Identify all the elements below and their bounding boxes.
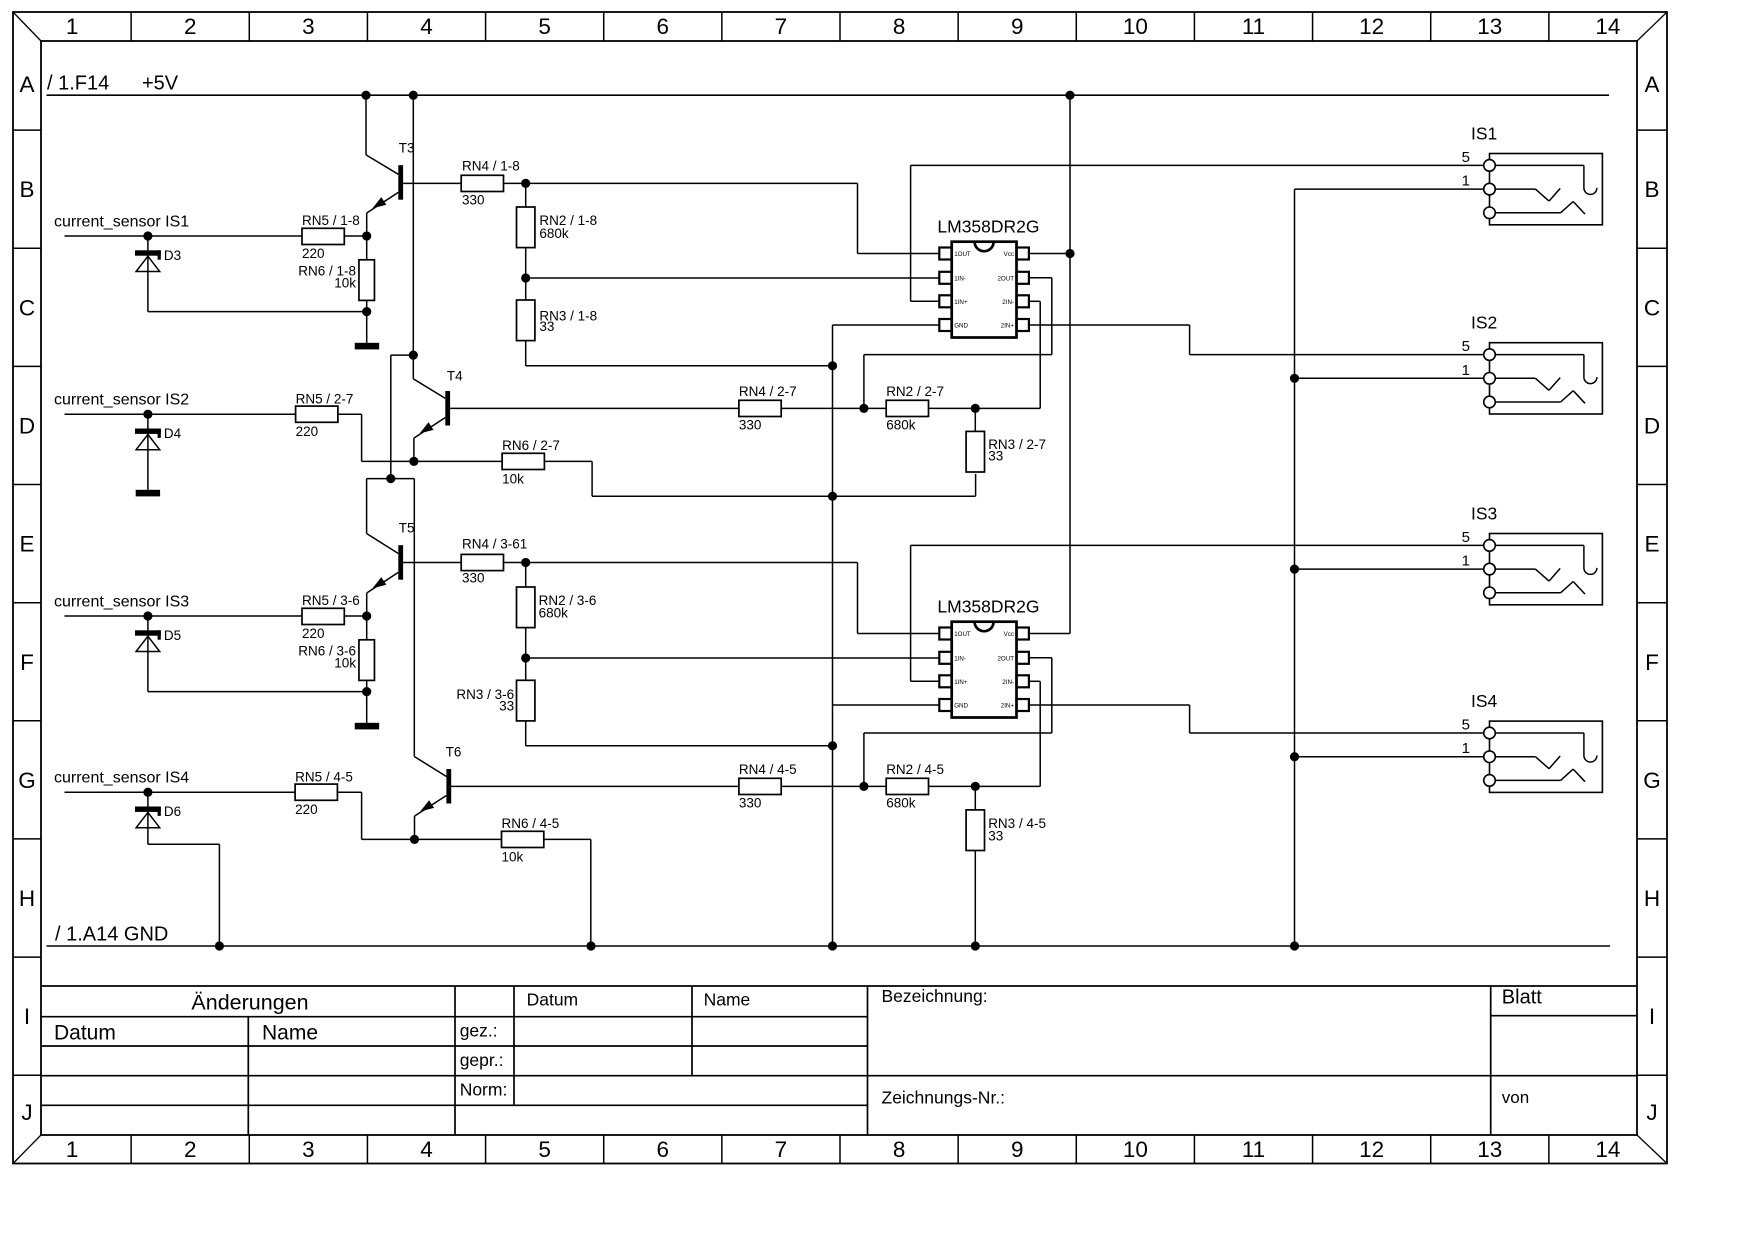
- svg-text:220: 220: [302, 626, 325, 641]
- junction RN2-3-6 / RN3-3-6 (U2 1IN-): [521, 653, 530, 662]
- svg-text:33: 33: [988, 829, 1003, 844]
- power net +5V line: [47, 94, 1610, 96]
- svg-text:current_sensor IS4: current_sensor IS4: [54, 770, 189, 787]
- svg-text:2OUT: 2OUT: [997, 655, 1014, 662]
- resistor RN4 / 2-7 330: [739, 384, 886, 432]
- junction bus/IS3 pin1: [1290, 565, 1299, 574]
- svg-text:3: 3: [302, 14, 315, 39]
- resistor RN3 / 3-6 33: [456, 658, 832, 746]
- svg-text:D3: D3: [164, 248, 181, 263]
- svg-text:220: 220: [296, 424, 319, 439]
- resistor RN6 / 4-5 10k: [502, 816, 591, 946]
- svg-text:+5V: +5V: [142, 73, 179, 95]
- connector IS3 (audio jack): [1462, 504, 1603, 605]
- svg-text:D: D: [1644, 413, 1660, 438]
- diode D6: [135, 792, 219, 946]
- resistor RN3 / 1-8 33: [517, 278, 833, 366]
- svg-text:11: 11: [1242, 14, 1265, 39]
- junction IS1/D3: [143, 231, 152, 240]
- svg-text:J: J: [21, 1100, 32, 1125]
- transistor T5: [367, 521, 462, 617]
- svg-text:33: 33: [539, 319, 554, 334]
- svg-text:3: 3: [302, 1137, 315, 1162]
- svg-text:B: B: [1644, 177, 1659, 202]
- connector IS4 (audio jack): [1462, 691, 1603, 792]
- svg-text:RN5 / 1-8: RN5 / 1-8: [302, 213, 360, 228]
- op-amp U1 LM358DR2G: [937, 217, 1039, 338]
- resistor RN2 / 4-5 680k: [886, 762, 1040, 810]
- svg-text:5: 5: [1462, 717, 1470, 734]
- wire RN4-3-6 junction to U2 pin 1OUT: [526, 563, 940, 634]
- wire +5V rail to op-amps Vcc: [1029, 95, 1070, 633]
- net label current_sensor IS2: [54, 392, 189, 409]
- svg-text:von: von: [1502, 1088, 1529, 1107]
- svg-text:C: C: [19, 295, 35, 320]
- resistor RN2 / 1-8 680k: [517, 183, 598, 278]
- wire current_sensor IS4: [65, 791, 296, 793]
- wire U2 GND pin to ground rail: [833, 704, 940, 706]
- svg-text:LM358DR2G: LM358DR2G: [937, 217, 1039, 237]
- svg-text:Name: Name: [704, 990, 751, 1010]
- junction IS4/D6: [143, 788, 152, 797]
- junction Vcc U1: [1065, 249, 1074, 258]
- svg-text:1OUT: 1OUT: [954, 251, 971, 258]
- svg-text:12: 12: [1359, 14, 1384, 39]
- svg-text:D: D: [19, 413, 35, 438]
- svg-text:2IN-: 2IN-: [1002, 299, 1014, 306]
- svg-text:13: 13: [1477, 1137, 1502, 1162]
- svg-text:1IN-: 1IN-: [954, 655, 966, 662]
- junction T3 emitter / RN5 / RN6: [362, 231, 371, 240]
- svg-text:7: 7: [775, 14, 788, 39]
- svg-text:Änderungen: Änderungen: [191, 991, 308, 1015]
- wire RN4-1-8 junction to U1 pin 1OUT: [526, 183, 940, 253]
- svg-text:680k: 680k: [539, 226, 569, 241]
- svg-text:Blatt: Blatt: [1502, 987, 1542, 1009]
- svg-text:Norm:: Norm:: [460, 1080, 508, 1100]
- svg-text:A: A: [19, 72, 34, 97]
- title block grid: [41, 986, 1637, 1135]
- svg-text:Bezeichnung:: Bezeichnung:: [882, 986, 988, 1006]
- svg-text:10k: 10k: [334, 656, 356, 671]
- svg-text:LM358DR2G: LM358DR2G: [937, 597, 1039, 617]
- svg-text:4: 4: [420, 1137, 433, 1162]
- svg-text:RN2 / 2-7: RN2 / 2-7: [886, 384, 944, 399]
- svg-text:1: 1: [1462, 173, 1470, 190]
- svg-text:8: 8: [893, 1137, 906, 1162]
- svg-text:Vcc: Vcc: [1004, 251, 1014, 258]
- svg-text:E: E: [1644, 532, 1659, 557]
- junction bus/IS2 pin1: [1290, 374, 1299, 383]
- svg-text:IS2: IS2: [1471, 313, 1497, 333]
- connector IS1 (audio jack): [1462, 124, 1603, 225]
- svg-text:D5: D5: [164, 628, 181, 643]
- net label current_sensor IS3: [54, 594, 189, 611]
- diode D5: [135, 616, 367, 692]
- svg-text:I: I: [1649, 1004, 1655, 1029]
- svg-text:GND: GND: [954, 703, 968, 710]
- junction RN6-3-6 bottom / D5: [362, 687, 371, 696]
- svg-text:RN2 / 4-5: RN2 / 4-5: [886, 762, 944, 777]
- svg-text:1IN+: 1IN+: [954, 299, 968, 306]
- svg-text:330: 330: [739, 796, 762, 811]
- svg-text:680k: 680k: [539, 606, 569, 621]
- svg-text:1OUT: 1OUT: [954, 631, 971, 638]
- svg-text:2IN-: 2IN-: [1002, 679, 1014, 686]
- svg-text:RN5 / 3-6: RN5 / 3-6: [302, 593, 360, 608]
- resistor RN3 / 2-7 33: [966, 408, 1046, 472]
- svg-text:/ 1.F14: / 1.F14: [47, 73, 109, 95]
- svg-text:Name: Name: [262, 1022, 318, 1045]
- svg-text:6: 6: [657, 1137, 670, 1162]
- wire U2 2IN- drop ch4: [1029, 681, 1040, 786]
- svg-text:IS1: IS1: [1471, 124, 1497, 144]
- frame row letters: [18, 72, 1661, 1125]
- svg-text:14: 14: [1595, 1137, 1620, 1162]
- net label GND / 1.A14: [55, 924, 168, 946]
- junction ground rail / U-GND drop: [828, 941, 837, 950]
- junction RN4-3-6 / RN2-3-6: [521, 558, 530, 567]
- junction RN4-4-5 / U2 2OUT drop: [859, 782, 868, 791]
- svg-text:T5: T5: [399, 521, 415, 536]
- svg-text:220: 220: [302, 246, 325, 261]
- ground symbol D4: [136, 490, 160, 497]
- svg-text:2: 2: [184, 1137, 197, 1162]
- svg-text:11: 11: [1242, 1137, 1265, 1162]
- transistor T3: [367, 141, 462, 237]
- svg-text:RN4 / 3-61: RN4 / 3-61: [462, 537, 527, 552]
- svg-text:1IN+: 1IN+: [954, 679, 968, 686]
- svg-text:5: 5: [1462, 529, 1470, 546]
- svg-text:10: 10: [1123, 14, 1148, 39]
- net label +5V / 1.F14: [47, 73, 179, 95]
- junction node A2 (413,355): [409, 351, 418, 360]
- svg-text:2IN+: 2IN+: [1001, 703, 1015, 710]
- wire U1 1IN+ to IS1 pin 5: [911, 165, 1484, 301]
- svg-text:5: 5: [538, 14, 551, 39]
- svg-text:9: 9: [1011, 1137, 1024, 1162]
- junction bus/IS4 pin1: [1290, 752, 1299, 761]
- svg-text:A: A: [1644, 72, 1659, 97]
- diode D4: [135, 414, 182, 490]
- svg-text:330: 330: [739, 418, 762, 433]
- resistor RN6 / 3-6 10k: [298, 616, 374, 692]
- svg-text:RN6 / 4-5: RN6 / 4-5: [502, 816, 560, 831]
- wire U1 2IN- drop ch2: [1029, 301, 1040, 408]
- junction T5 emitter / RN5 / RN6 ch3: [362, 611, 371, 620]
- svg-text:14: 14: [1595, 14, 1620, 39]
- svg-text:Zeichnungs-Nr.:: Zeichnungs-Nr.:: [882, 1087, 1006, 1107]
- svg-text:H: H: [19, 886, 35, 911]
- svg-text:1IN-: 1IN-: [954, 275, 966, 282]
- svg-text:4: 4: [420, 14, 433, 39]
- junction IS2/D4: [143, 410, 152, 419]
- junction RN2-4-5 / RN3-4-5 (U2 2IN-): [971, 782, 980, 791]
- svg-text:J: J: [1646, 1100, 1657, 1125]
- svg-text:2: 2: [184, 14, 197, 39]
- wire junction to U2 pin 1IN-: [526, 657, 940, 659]
- wire current_sensor IS1: [65, 235, 303, 237]
- resistor RN5 / 4-5 220: [295, 769, 501, 839]
- junction +5V x=413: [409, 91, 418, 100]
- svg-text:1: 1: [66, 14, 79, 39]
- junction D6 / ground rail: [215, 941, 224, 950]
- svg-text:/ 1.A14 GND: / 1.A14 GND: [55, 924, 168, 946]
- svg-text:RN6 / 2-7: RN6 / 2-7: [502, 438, 560, 453]
- resistor RN6 / 1-8 10k: [298, 236, 374, 312]
- junction RN6-4-5 / ground rail: [586, 941, 595, 950]
- svg-text:IS4: IS4: [1471, 691, 1498, 711]
- svg-text:Vcc: Vcc: [1004, 631, 1014, 638]
- svg-text:2IN+: 2IN+: [1001, 323, 1015, 330]
- junction RN6-1-8 bottom / D3: [362, 307, 371, 316]
- wire IS pin-1 bus to ground rail: [1295, 189, 1484, 946]
- svg-text:current_sensor IS2: current_sensor IS2: [54, 392, 189, 409]
- wire +5V to T3 collector: [366, 95, 398, 174]
- junction +5V x=366: [361, 91, 370, 100]
- svg-text:10k: 10k: [502, 849, 524, 864]
- svg-text:5: 5: [1462, 338, 1470, 355]
- wire +5V rail to T4/T5/T6 collectors: [367, 95, 447, 776]
- svg-text:10k: 10k: [334, 276, 356, 291]
- svg-text:2OUT: 2OUT: [997, 275, 1014, 282]
- resistor RN2 / 3-6 680k: [517, 563, 597, 659]
- resistor RN4 / 3-6 330: [461, 537, 527, 586]
- ground symbol channel 3: [355, 692, 379, 730]
- svg-text:T6: T6: [446, 744, 462, 759]
- svg-text:gepr.:: gepr.:: [460, 1050, 504, 1070]
- svg-text:G: G: [1643, 768, 1661, 793]
- junction bus/ground rail: [1290, 941, 1299, 950]
- wire junction to U1 pin 1IN-: [526, 277, 940, 279]
- svg-text:Datum: Datum: [54, 1022, 116, 1045]
- svg-text:G: G: [18, 768, 36, 793]
- junction RN4-1-8 / RN2-1-8: [521, 179, 530, 188]
- svg-text:12: 12: [1359, 1137, 1384, 1162]
- wire U2 2IN+ to IS4 pin 5: [1029, 705, 1484, 733]
- resistor RN4 / 4-5 330: [739, 762, 886, 810]
- junction IS3/D5: [143, 611, 152, 620]
- connector IS2 (audio jack): [1462, 313, 1603, 414]
- wire current_sensor IS3: [65, 615, 303, 617]
- net label current_sensor IS4: [54, 770, 189, 787]
- junction +5V x=1070: [1065, 91, 1074, 100]
- svg-text:F: F: [20, 650, 34, 675]
- junction T4 emitter / RN5 / RN6 ch2: [409, 457, 418, 466]
- resistor RN5 / 1-8 220: [302, 213, 367, 261]
- svg-text:33: 33: [988, 449, 1003, 464]
- svg-text:RN4 / 1-8: RN4 / 1-8: [462, 159, 520, 174]
- wire U1 2IN+ to IS2 pin 5: [1029, 325, 1484, 355]
- wire U1 2OUT to RN4/RN2 ch2: [864, 278, 1052, 409]
- junction RN2-2-7 / RN3-2-7 (U1 2IN-): [971, 404, 980, 413]
- svg-text:F: F: [1645, 650, 1659, 675]
- resistor RN5 / 2-7 220: [296, 391, 503, 461]
- svg-text:IS3: IS3: [1471, 504, 1497, 524]
- resistor RN3 / 4-5 33: [966, 786, 1046, 946]
- svg-text:220: 220: [295, 802, 318, 817]
- svg-text:9: 9: [1011, 14, 1024, 39]
- ground symbol channel 1: [355, 312, 379, 350]
- junction RN3-3-6 / GND drop: [828, 741, 837, 750]
- svg-text:6: 6: [657, 14, 670, 39]
- svg-text:8: 8: [893, 14, 906, 39]
- wire U1 GND pin to ground rail: [833, 325, 940, 946]
- transistor T6: [415, 744, 739, 839]
- svg-text:5: 5: [538, 1137, 551, 1162]
- svg-text:13: 13: [1477, 14, 1502, 39]
- svg-text:10: 10: [1123, 1137, 1148, 1162]
- wire U2 1IN+ to IS3 pin 5: [911, 545, 1484, 681]
- resistor RN6 / 2-7 10k: [502, 438, 975, 496]
- transistor T4: [414, 368, 739, 461]
- net label current_sensor IS1: [54, 214, 189, 231]
- svg-text:33: 33: [499, 699, 514, 714]
- svg-text:1: 1: [1462, 553, 1470, 570]
- svg-text:RN5 / 4-5: RN5 / 4-5: [295, 769, 353, 784]
- resistor RN4 / 1-8 330: [461, 159, 526, 208]
- svg-text:5: 5: [1462, 149, 1470, 166]
- junction RN3-1-8 / GND drop: [828, 361, 837, 370]
- svg-text:RN4 / 2-7: RN4 / 2-7: [739, 384, 797, 399]
- resistor RN5 / 3-6 220: [302, 593, 367, 641]
- svg-text:E: E: [19, 532, 34, 557]
- junction RN3-4-5 / ground rail: [971, 941, 980, 950]
- svg-text:330: 330: [462, 571, 485, 586]
- svg-text:T4: T4: [447, 368, 463, 383]
- svg-text:1: 1: [1462, 362, 1470, 379]
- resistor RN2 / 2-7 680k: [886, 384, 1040, 432]
- junction node A3 (391,479): [386, 474, 395, 483]
- svg-text:680k: 680k: [886, 418, 916, 433]
- svg-text:RN4 / 4-5: RN4 / 4-5: [739, 762, 797, 777]
- op-amp U2 LM358DR2G: [937, 597, 1039, 718]
- wire U2 2OUT to RN4/RN2 ch4: [864, 658, 1052, 787]
- svg-text:10k: 10k: [502, 471, 524, 486]
- svg-text:H: H: [1644, 886, 1660, 911]
- svg-text:680k: 680k: [886, 796, 916, 811]
- junction ch2 gnd line / GND drop: [828, 492, 837, 501]
- junction T6 emitter / RN5 / RN6 ch4: [410, 835, 419, 844]
- junction RN4-2-7 / U1 2OUT drop: [859, 404, 868, 413]
- title block texts: [54, 986, 1542, 1107]
- svg-text:Datum: Datum: [527, 990, 579, 1010]
- svg-text:current_sensor IS1: current_sensor IS1: [54, 214, 189, 231]
- wire current_sensor IS2: [65, 413, 296, 415]
- svg-text:I: I: [24, 1004, 30, 1029]
- diode D3: [135, 236, 367, 312]
- svg-text:GND: GND: [954, 323, 968, 330]
- svg-text:1: 1: [1462, 740, 1470, 757]
- svg-text:RN5 / 2-7: RN5 / 2-7: [296, 391, 354, 406]
- svg-text:B: B: [19, 177, 34, 202]
- svg-text:1: 1: [66, 1137, 79, 1162]
- svg-text:current_sensor IS3: current_sensor IS3: [54, 594, 189, 611]
- svg-text:gez.:: gez.:: [460, 1020, 498, 1040]
- svg-text:C: C: [1644, 295, 1660, 320]
- svg-text:7: 7: [775, 1137, 788, 1162]
- svg-text:330: 330: [462, 193, 485, 208]
- svg-text:D6: D6: [164, 804, 181, 819]
- junction RN2-1-8 / RN3-1-8 (U1 1IN-): [521, 273, 530, 282]
- svg-text:D4: D4: [164, 426, 182, 441]
- svg-text:T3: T3: [399, 141, 415, 156]
- ground net GND line: [47, 945, 1611, 947]
